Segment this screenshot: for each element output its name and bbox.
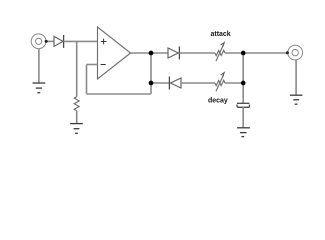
node lower branch junction bbox=[149, 81, 154, 86]
wire capacitor to ground bbox=[242, 107, 244, 128]
node right top junction bbox=[241, 51, 246, 56]
wire D1 to op-amp + input bbox=[64, 40, 98, 42]
potentiometer decay bbox=[215, 80, 225, 85]
node input tip dot bbox=[45, 40, 48, 43]
wire output vertical bbox=[150, 53, 152, 94]
wire to output jack bbox=[243, 52, 287, 54]
ground G2 (below R1) bbox=[70, 124, 83, 134]
wire R1 to ground bbox=[76, 111, 78, 124]
wire jack J1 to ground bbox=[38, 49, 40, 83]
wire D2 to attack pot bbox=[179, 52, 215, 54]
wire D3 to decay pot bbox=[181, 82, 215, 84]
ground G1 (below input jack) bbox=[33, 83, 46, 93]
wire lower branch to D3 bbox=[151, 82, 169, 84]
wire jack to D1 bbox=[46, 40, 54, 42]
wire output jack to ground bbox=[295, 60, 297, 95]
wire decay pot to right node bbox=[225, 82, 243, 84]
diode D1 bbox=[54, 35, 64, 48]
wire attack pot to right node bbox=[225, 52, 243, 54]
jack J1 (input) bbox=[31, 34, 46, 49]
wire feedback bottom bbox=[87, 93, 152, 95]
capacitor C1 bbox=[237, 102, 250, 104]
wire op-amp output bbox=[131, 52, 169, 54]
wire minus input bbox=[87, 64, 98, 66]
wire right vertical to capacitor bbox=[242, 53, 244, 103]
wire feedback left vertical bbox=[86, 65, 88, 95]
node output junction bbox=[149, 51, 154, 56]
node output tip dot bbox=[286, 51, 289, 54]
svg-text:attack: attack bbox=[210, 31, 230, 38]
diode D3 (decay path, reversed) bbox=[169, 77, 181, 90]
resistor R1 bbox=[74, 97, 79, 111]
ground G4 (below output jack) bbox=[290, 95, 303, 104]
svg-text:decay: decay bbox=[208, 98, 228, 105]
diode D2 (attack path) bbox=[168, 47, 179, 60]
wire T-junction down to R1 bbox=[76, 41, 78, 96]
potentiometer attack bbox=[215, 50, 225, 55]
op-amp plus input marking bbox=[101, 39, 107, 45]
jack J2 (output) bbox=[288, 45, 303, 60]
op-amp minus input marking bbox=[101, 64, 106, 66]
op-amp U1 bbox=[98, 27, 131, 79]
node right bottom junction bbox=[241, 81, 246, 86]
ground G3 (below capacitor) bbox=[237, 128, 250, 137]
